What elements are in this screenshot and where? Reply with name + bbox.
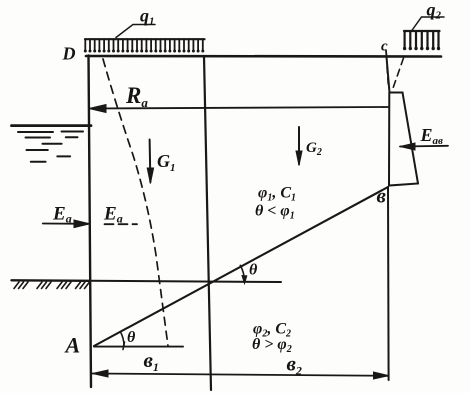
Ea dashed underline (inside) bbox=[105, 223, 138, 225]
dashed vertical below C bbox=[387, 67, 389, 88]
right wall line B down bbox=[387, 187, 390, 380]
Eav arrow bbox=[400, 143, 448, 150]
svg-text:q1: q1 bbox=[140, 6, 155, 28]
svg-text:Ea: Ea bbox=[103, 204, 123, 226]
G1 weight arrow bbox=[147, 140, 153, 184]
load q2 hatched strip bbox=[403, 31, 440, 50]
dashed wedge line right of C bbox=[392, 58, 404, 91]
svg-text:θ: θ bbox=[249, 262, 258, 279]
svg-text:А: А bbox=[64, 333, 81, 358]
theta arc at A bbox=[120, 332, 124, 347]
svg-text:Ra: Ra bbox=[125, 83, 148, 110]
svg-text:q2: q2 bbox=[427, 0, 442, 22]
wall left edge D-A bbox=[89, 56, 92, 388]
pressure diagram trapezoid Eav bbox=[389, 93, 418, 186]
svg-text:θ: θ bbox=[127, 329, 136, 346]
label q2 leader bbox=[412, 17, 445, 31]
svg-text:в2: в2 bbox=[287, 352, 302, 378]
G2 weight arrow bbox=[296, 127, 302, 166]
svg-text:в: в bbox=[377, 184, 387, 208]
wall segment C to pressure block bbox=[387, 57, 390, 93]
tick at C on top line bbox=[385, 51, 388, 57]
load q1 hatched strip bbox=[84, 39, 205, 53]
theta arc tick at A bbox=[123, 342, 125, 350]
svg-text:θ < φ1: θ < φ1 bbox=[255, 203, 295, 222]
top edge D-C line bbox=[86, 55, 441, 58]
svg-text:Ea: Ea bbox=[52, 204, 72, 226]
water shading dashes bbox=[18, 132, 83, 162]
svg-text:G2: G2 bbox=[306, 140, 322, 158]
Ra arrow bbox=[89, 105, 389, 113]
failure line A-B bbox=[94, 187, 388, 346]
theta arc at mid intersection bbox=[240, 265, 244, 282]
svg-text:φ1, C1: φ1, C1 bbox=[258, 185, 296, 204]
middle vertical line bbox=[204, 56, 211, 390]
horizontal reference line at A bbox=[94, 346, 183, 348]
svg-text:в1: в1 bbox=[144, 348, 159, 374]
bottom dimension line bbox=[93, 370, 389, 379]
theta arc arrowhead at mid bbox=[242, 276, 247, 284]
dashed slip curve from D to A bbox=[103, 59, 168, 346]
water surface line bbox=[12, 124, 92, 127]
svg-text:G1: G1 bbox=[157, 151, 176, 174]
svg-text:Eав: Eав bbox=[420, 125, 444, 147]
svg-text:D: D bbox=[62, 44, 76, 64]
interior horizontal line at theta level bbox=[90, 281, 281, 282]
label q1 leader bbox=[116, 25, 155, 38]
svg-text:c: c bbox=[381, 39, 388, 55]
ground surface line left with hatching bbox=[12, 280, 91, 288]
Ea arrow (outside wall) bbox=[43, 220, 90, 228]
